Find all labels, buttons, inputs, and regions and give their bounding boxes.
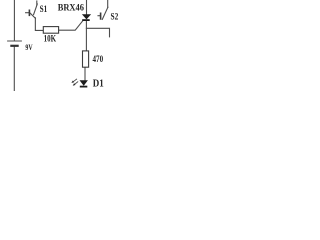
svg-text:S2: S2 bbox=[111, 13, 119, 23]
svg-text:470: 470 bbox=[93, 54, 104, 64]
svg-text:10K: 10K bbox=[44, 34, 57, 44]
svg-text:S1: S1 bbox=[40, 4, 48, 14]
svg-text:D1: D1 bbox=[93, 79, 104, 90]
svg-text:9V: 9V bbox=[25, 43, 32, 52]
svg-text:BRX46: BRX46 bbox=[58, 4, 85, 14]
